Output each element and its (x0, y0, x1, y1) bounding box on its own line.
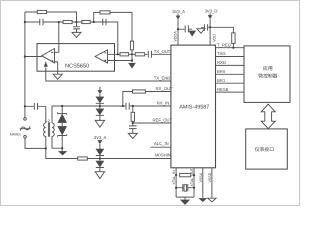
ground under C2 (72, 32, 81, 37)
junction opamp1 inverting riser (58, 21, 60, 23)
resistor R2 (63, 20, 72, 23)
ground arrow TVS (58, 151, 67, 155)
ground open under D4 (95, 172, 104, 179)
wire U1A inverting stub and riser (55, 22, 59, 52)
junction rail-feedback (24, 21, 26, 23)
junction xtal resistor right (193, 174, 195, 176)
resistor R12 crystal (180, 173, 191, 176)
transformer T1 secondary (52, 123, 62, 148)
junction rail-coupling (24, 105, 26, 107)
svg-text:RXD: RXD (217, 60, 226, 65)
MCU box (244, 46, 290, 103)
svg-text:XTAL_IN: XTAL_IN (172, 170, 176, 185)
svg-text:仪表接口: 仪表接口 (255, 146, 274, 153)
wire XTAL_IN (175, 168, 177, 197)
ground under U1A input (53, 74, 62, 79)
wire VDD riser (209, 19, 211, 45)
capacitor C7 REF divider (129, 126, 137, 133)
ground open under D2 (95, 120, 104, 127)
resistor R6 (120, 53, 129, 56)
wire MAINS bottom (25, 138, 46, 148)
ground arrow under U1B stub (128, 63, 135, 68)
wire BR1 (216, 82, 245, 84)
svg-text:TX_OUT: TX_OUT (154, 49, 171, 54)
junction REF divider (132, 122, 134, 124)
junction rail-output (24, 55, 26, 57)
svg-text:应用: 应用 (263, 65, 273, 72)
junction xtal resistor left (175, 174, 177, 176)
resistor R5 vertical on feedback B (130, 41, 133, 50)
capacitor C1 (40, 19, 43, 25)
junction crystal left (175, 187, 177, 189)
wire U1A output to rail (25, 56, 42, 58)
power flag 3V3_A (177, 14, 179, 16)
diode D2 (99, 106, 101, 109)
svg-text:VDD: VDD (213, 34, 217, 42)
svg-text:MAINS: MAINS (10, 133, 21, 137)
wire T_REQ pull-up (210, 27, 233, 47)
svg-text:1:2: 1:2 (45, 119, 50, 123)
wire coupling line to transformer (25, 106, 46, 123)
svg-text:BR0: BR0 (217, 69, 226, 74)
op-amp U1B plus mark (104, 60, 106, 62)
junction RX-divider (132, 105, 134, 107)
resistor R9 REF divider (132, 106, 134, 126)
ground arrow crystal (180, 200, 190, 205)
enable arrow into U1A (44, 62, 48, 67)
svg-text:AMIS-49587: AMIS-49587 (179, 104, 209, 110)
svg-text:NCS5650: NCS5650 (65, 64, 89, 70)
transformer T1 core (48, 122, 49, 136)
op-amp U1A minus mark (51, 52, 53, 54)
junction VDD decoupling (209, 26, 211, 28)
junction TX node 1 (117, 53, 119, 55)
svg-text:TXD: TXD (217, 51, 225, 56)
double arrow MCU to meter (261, 104, 275, 128)
ground open 3V3D (197, 29, 205, 34)
wire TX chain from U1B input (108, 53, 171, 55)
crystal Y1 (176, 184, 194, 191)
wire VSSA (202, 168, 204, 198)
junction opamp2 lower stub (131, 59, 133, 61)
ground under C7 (128, 133, 137, 138)
ground open VSSA (199, 198, 207, 202)
wire REF_OUT (133, 122, 171, 124)
junction M0SHIN clamp (99, 157, 101, 159)
wire feedback B lower (131, 50, 133, 54)
capacitor C2 (73, 22, 80, 32)
junction feedback B riser (93, 21, 95, 23)
ground arrow 3V3A (189, 31, 196, 37)
resistor R3 (82, 20, 90, 23)
svg-text:3V3_A: 3V3_A (94, 135, 107, 140)
wire U1B lower stub (108, 54, 133, 62)
diode D1 (99, 94, 101, 97)
wire T_REQ (216, 47, 245, 49)
junction TVS ground (61, 147, 63, 149)
meter interface box (246, 129, 288, 169)
junction RX-RXOUT (122, 105, 124, 107)
capacitor C4 TX series (148, 51, 151, 58)
svg-text:REF_OUT: REF_OUT (153, 118, 173, 123)
svg-text:RX_IN: RX_IN (157, 100, 169, 105)
wire U1A non-inverting stub to ground (55, 62, 58, 74)
resistor R10 (78, 157, 88, 160)
wire RX_IN line (52, 106, 171, 123)
svg-text:3V3_D: 3V3_D (205, 9, 218, 14)
wire TX_ENB (46, 67, 171, 81)
svg-text:RX_OUT: RX_OUT (156, 86, 173, 91)
op-amp U1A triangle (42, 49, 55, 63)
wire BR0 (216, 73, 245, 75)
wire RX_OUT (123, 92, 171, 107)
op-amp U1B triangle (95, 50, 107, 63)
clamp chain 1 power flag (99, 87, 101, 90)
junction mains-primary (45, 147, 47, 149)
wire XTAL_OUT (193, 168, 195, 197)
capacitor C8 3V3A decouple (178, 25, 192, 32)
capacitor C6 RX series (126, 103, 129, 110)
IC U2 AMIS-49587 (171, 45, 216, 168)
wire VSSD (211, 168, 213, 198)
diode D4 (99, 159, 101, 161)
junction RX-clamp (99, 105, 101, 107)
junction crystal right (193, 187, 195, 189)
svg-text:VSSD: VSSD (208, 172, 212, 182)
power flag 3V3_D (209, 13, 211, 15)
op-amp U1B minus mark (104, 52, 106, 54)
junction T_REQ pull-up (232, 47, 234, 49)
svg-text:BR1: BR1 (217, 78, 226, 83)
TVS D6 lower zener (61, 123, 63, 127)
wire M0SHN line (46, 148, 171, 158)
resistor R4 (100, 11, 110, 14)
wire VDDA riser (177, 19, 179, 45)
svg-text:3V3_A: 3V3_A (172, 9, 185, 14)
junction feedback A drop (75, 21, 77, 23)
resistor R11 pull-up (232, 33, 235, 44)
resistor R7 (135, 53, 145, 56)
diode D3 (99, 144, 101, 149)
wire RXD (216, 64, 245, 66)
resistor R8 (133, 90, 146, 93)
wire crystal bottom join (176, 197, 194, 200)
capacitor C5 coupling (34, 103, 37, 110)
wire TXD (216, 56, 245, 58)
MAINS connector (24, 118, 27, 121)
wire left rail (24, 12, 26, 118)
svg-text:TX_ENB: TX_ENB (154, 76, 170, 81)
op-amp U1A plus mark (51, 60, 53, 62)
junction VDDA decoupling (177, 28, 179, 30)
TVS D5 upper zener (58, 106, 67, 115)
wire feedback segment B (94, 12, 132, 41)
svg-text:T_REQ: T_REQ (217, 42, 232, 47)
wire ALC_IN stub (151, 146, 171, 148)
clamp chain 2 power flag (98, 140, 103, 144)
wire feedback segment A top (25, 12, 77, 22)
wire RC network line y21 (25, 22, 118, 54)
ground open VSSD (208, 198, 216, 202)
svg-text:VSSA: VSSA (199, 172, 203, 182)
capacitor C9 3V3D decouple (201, 24, 210, 30)
transformer T1 primary (44, 123, 46, 148)
svg-text:RESB: RESB (217, 87, 229, 92)
svg-text:VDDA: VDDA (174, 31, 178, 42)
svg-text:M0SHIN: M0SHIN (155, 152, 171, 157)
capacitor C3 (103, 19, 106, 25)
wire RESB (216, 91, 245, 93)
op-amp box NCS5650 (37, 44, 115, 72)
resistor R1 (37, 10, 46, 13)
junction TX node 2 (131, 53, 133, 55)
junction RX-TVS (61, 105, 63, 107)
svg-text:微控制器: 微控制器 (258, 73, 277, 80)
svg-text:ALC_IN: ALC_IN (154, 141, 169, 146)
